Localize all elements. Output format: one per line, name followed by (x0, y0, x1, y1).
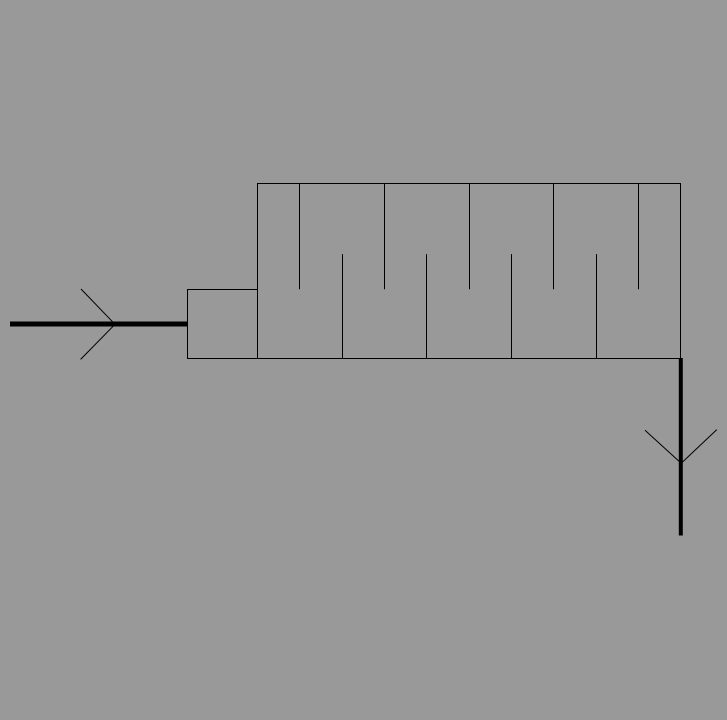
baffle 8 (from bottom) (596, 254, 598, 358)
flow arrow (down-pointing) left barb (645, 430, 681, 463)
inlet box (188, 290, 258, 359)
baffle 3 (from top) (384, 184, 386, 290)
baffle 1 (from top) (299, 184, 301, 290)
baffle 5 (from top) (469, 184, 471, 290)
baffle 9 (from top) (638, 184, 640, 290)
wire: thick outlet line (vertical) (679, 358, 683, 536)
wire: thick inlet line (10, 322, 188, 327)
flow arrow (down-pointing) right barb (681, 430, 717, 464)
baffle 4 (from bottom) (426, 254, 428, 358)
flow arrow (right-pointing) lower barb (81, 324, 115, 359)
baffle 7 (from top) (553, 184, 555, 290)
flow arrow (right-pointing) upper barb (81, 289, 115, 324)
muffler body (outer rectangle) (258, 184, 681, 359)
baffle 2 (from bottom) (342, 254, 344, 358)
baffle 6 (from bottom) (511, 254, 513, 358)
